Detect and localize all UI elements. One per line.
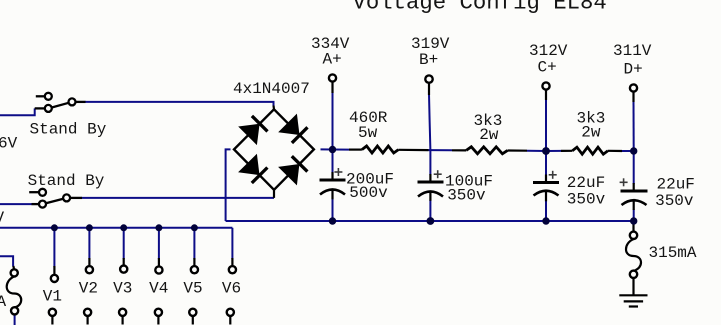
svg-text:22uF: 22uF <box>567 174 605 192</box>
svg-text:311V: 311V <box>613 42 652 60</box>
svg-text:V1: V1 <box>43 288 62 306</box>
svg-text:350v: 350v <box>655 192 694 210</box>
svg-text:Voltage Config EL84: Voltage Config EL84 <box>353 0 607 16</box>
svg-text:B+: B+ <box>419 51 438 69</box>
svg-text:500v: 500v <box>349 184 388 202</box>
svg-text:V2: V2 <box>79 280 98 298</box>
svg-text:312V: 312V <box>529 42 568 60</box>
svg-text:V: V <box>0 209 5 227</box>
svg-text:V4: V4 <box>149 280 168 298</box>
svg-text:D+: D+ <box>624 61 643 79</box>
svg-text:315mA: 315mA <box>649 244 697 262</box>
svg-text:5w: 5w <box>358 124 378 142</box>
svg-text:350v: 350v <box>567 191 606 209</box>
svg-text:V3: V3 <box>113 280 132 298</box>
svg-text:V6: V6 <box>222 280 241 298</box>
svg-text:A+: A+ <box>323 51 342 69</box>
svg-text:C+: C+ <box>538 59 557 77</box>
svg-text:Stand By: Stand By <box>30 121 107 139</box>
svg-text:22uF: 22uF <box>657 175 695 193</box>
svg-text:4x1N4007: 4x1N4007 <box>233 80 310 98</box>
svg-text:V5: V5 <box>183 280 202 298</box>
svg-text:A: A <box>0 293 7 311</box>
svg-text:2w: 2w <box>479 126 499 144</box>
svg-text:2w: 2w <box>581 124 601 142</box>
svg-text:Stand By: Stand By <box>28 172 105 190</box>
svg-text:6V: 6V <box>0 135 18 153</box>
svg-text:350v: 350v <box>447 187 486 205</box>
